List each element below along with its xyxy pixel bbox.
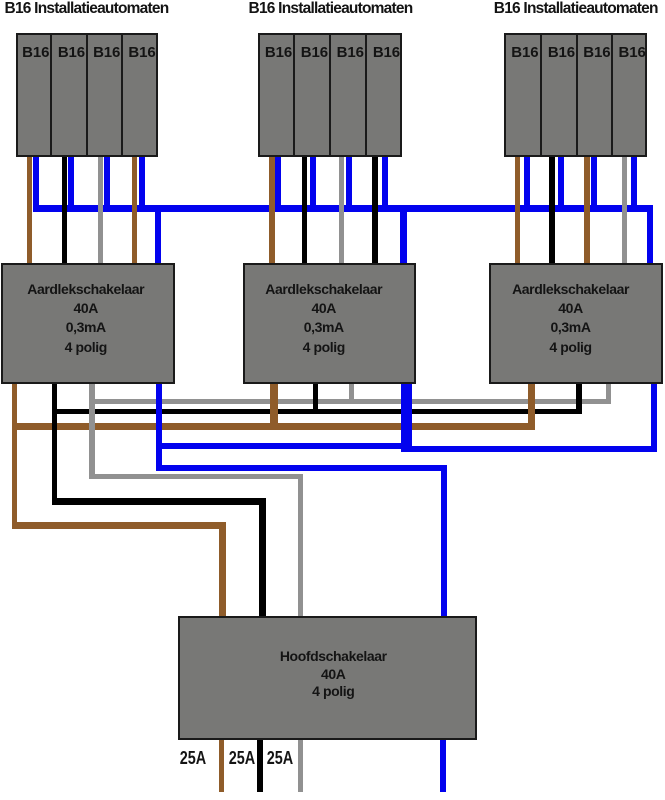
wire phase brown g1 breaker 4 to RCD1 [132,155,138,266]
wire neutral tap bus to RCD2 [400,205,407,266]
wire phase black g3 breaker 2 to RCD3 [549,155,554,266]
breaker B16 label g3-4 [615,45,650,60]
wire phase brown g3 breaker 3 to RCD3 [584,155,589,266]
wire neutral blue g3 breaker 4 to bus [631,155,637,212]
wire phase black g2 breaker 4 to RCD2 [372,155,377,266]
breaker group 1 divider 3 [121,33,123,157]
wire phase brown g2 breaker 1 to RCD2 [269,155,275,266]
blue bus neutral RCD1 to RCD2 [156,443,407,450]
wire brown output L1 25A [219,738,225,792]
breaker B16 label g2-2 [296,45,332,60]
wire neutral blue g2 breaker 3 to bus [346,155,352,212]
grey bus RCD outputs [89,399,611,404]
wire neutral blue g1 breaker 1 to bus [33,155,39,212]
wire neutral blue g3 breaker 3 to bus [591,155,597,212]
wire neutral blue g3 breaker 2 to bus [558,155,564,212]
breaker group 2 divider 2 [329,33,331,157]
wire grey RCD2 to grey bus [349,381,355,404]
wire phase black g2 breaker 2 to RCD2 [302,155,307,266]
wire neutral blue g2 breaker 4 to bus [382,155,388,212]
wire brown riser into main switch [219,522,226,618]
breaker group 2 block outline [258,33,402,157]
wire brown horizontal to main switch [12,522,226,529]
neutral bus (top) [33,205,653,211]
label group 2 title [244,1,417,17]
wire phase brown g1 breaker 1 to RCD1 [27,155,32,266]
breaker B16 label g2-1 [261,45,297,60]
wire phase black g1 breaker 2 to RCD1 [62,155,67,266]
label 25A L2 [218,749,265,768]
blue bus neutral to main switch [156,465,447,471]
wire grey riser into main switch [298,474,304,618]
wire neutral blue g2 breaker 2 to bus [310,155,316,212]
breaker group 1 divider 1 [50,33,52,157]
wire black RCD1 down [52,381,58,505]
wire black RCD2 to black bus [313,381,318,414]
breaker B16 label g1-1 [18,45,54,60]
breaker B16 label g2-4 [368,45,405,60]
RCD U2 label [237,280,411,357]
breaker group 2 divider 3 [365,33,367,157]
label 25A L1 [170,749,217,768]
wire black horizontal to main switch [52,498,266,506]
wire grey horizontal to main switch [89,474,303,479]
RCD U3 label [484,280,658,357]
RCD U1 Aardlekschakelaar box [1,263,175,384]
breaker group 3 divider 1 [540,33,542,157]
label group 3 title [489,1,663,17]
label group 1 title [0,1,173,17]
breaker group 1 divider 2 [86,33,88,157]
wire blue RCD1 down [156,381,162,471]
breaker B16 label g2-3 [332,45,368,60]
wire brown RCD2 to brown bus [270,381,278,430]
wire brown RCD3 to brown bus [528,381,535,430]
RCD U1 label [0,280,173,357]
breaker B16 label g3-3 [579,45,614,60]
wire black output L2 25A [257,738,263,792]
wire black RCD3 to black bus [576,381,581,414]
wire grey output L3 25A [298,738,304,792]
wire blue RCD3 to blue bus [651,381,657,452]
wire black riser into main switch [259,498,266,618]
brown bus RCD outputs [12,423,535,430]
wire neutral tap bus to RCD1 [155,205,161,266]
wire blue output N [440,738,446,792]
wire neutral blue g1 breaker 4 to bus [139,155,145,212]
wire neutral tap bus to RCD3 (bus right elbow) [647,205,653,266]
wire neutral blue g2 breaker 1 to bus [275,155,281,212]
breaker group 2 divider 1 [293,33,295,157]
wire neutral blue g3 breaker 1 to bus [524,155,530,212]
breaker B16 label g1-2 [54,45,90,60]
wire grey RCD3 to grey bus [606,381,611,404]
wire phase grey g1 breaker 3 to RCD1 [98,155,103,266]
label 25A L3 [257,749,304,768]
wire blue riser into main switch [441,465,447,618]
black bus RCD outputs [52,409,582,414]
RCD U2 Aardlekschakelaar box [243,263,417,384]
breaker B16 label g1-4 [124,45,160,60]
breaker group 3 divider 3 [611,33,613,157]
blue bus neutral RCD2 to RCD3 [401,446,657,453]
breaker group 3 block outline [504,33,648,157]
main switch label [184,648,483,701]
breaker group 1 block outline [16,33,158,157]
wire phase brown g3 breaker 1 to RCD3 [515,155,520,266]
breaker B16 label g3-1 [506,45,543,60]
RCD U3 Aardlekschakelaar box [489,263,663,384]
breaker group 3 divider 2 [576,33,578,157]
wire phase grey g2 breaker 3 to RCD2 [339,155,344,266]
breaker B16 label g1-3 [89,45,124,60]
wire neutral blue g1 breaker 3 to bus [104,155,110,212]
wire phase grey g3 breaker 4 to RCD3 [622,155,627,266]
wire blue RCD2 to blue bus [401,381,412,452]
breaker B16 label g3-2 [544,45,580,60]
main switch Hoofdschakelaar box [178,616,477,740]
wire grey RCD1 down [89,381,94,479]
wire brown RCD1 down [12,381,18,529]
wire neutral blue g1 breaker 2 to bus [68,155,74,212]
